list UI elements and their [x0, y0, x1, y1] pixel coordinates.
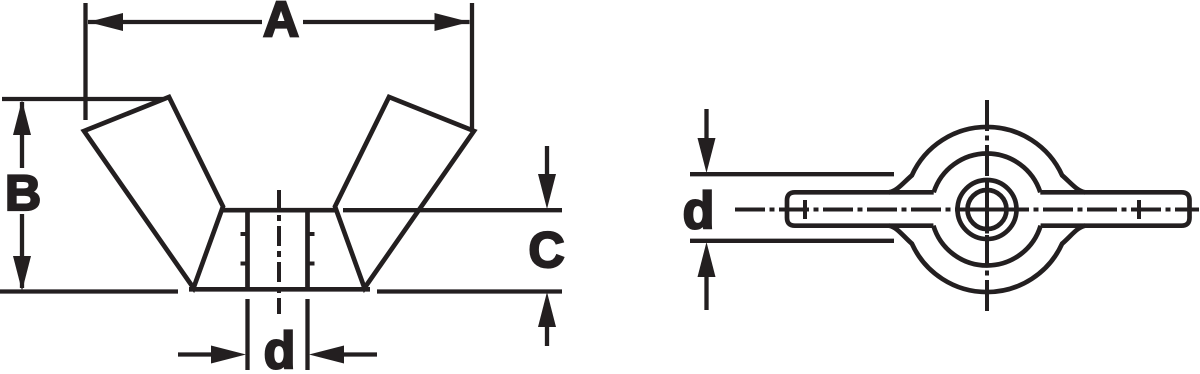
right wing outline: [335, 97, 474, 288]
dim d side extension line bottom: [690, 239, 894, 243]
left wing outline: [84, 97, 223, 288]
thread tick left lower: [241, 262, 246, 266]
dim A arrowhead left: [88, 13, 123, 31]
dim B arrowhead bottom: [13, 256, 31, 291]
dim d side arrowhead top: [698, 138, 716, 173]
thread minor circle: [968, 190, 1007, 229]
dim d side arrowhead bottom: [698, 242, 716, 277]
dim B extension line top: [2, 97, 163, 101]
wing bar top edge inside hub left: [889, 190, 934, 195]
svg-text:C: C: [528, 222, 564, 278]
side view outline (wing bar + hub circle with neck fillets): [787, 127, 1190, 292]
crosshair vertical: [985, 186, 989, 234]
thread tick right lower: [310, 262, 315, 266]
nut body bottom edge: [189, 287, 370, 292]
dim C arrowhead top: [538, 174, 556, 209]
wing bar bottom edge inside hub right: [1041, 223, 1085, 228]
dim d extension line left: [245, 299, 249, 370]
dim A extension line right: [470, 3, 474, 129]
wing tip inner line left: [803, 200, 807, 219]
vertical centerline side view: [985, 100, 989, 311]
wing tip inner line right: [1137, 200, 1141, 219]
dim B line lower segment: [20, 214, 24, 288]
svg-text:d: d: [683, 182, 715, 240]
dim d side arrow tail bottom: [704, 276, 708, 310]
nut body top edge: [221, 208, 337, 213]
crosshair horizontal: [963, 208, 1011, 212]
dim B arrowhead top: [13, 100, 31, 135]
baseline left (B bottom extension): [0, 289, 178, 293]
dim d side extension line top: [690, 172, 894, 176]
dim d extension line right: [305, 299, 309, 370]
dim C arrow tail bottom: [545, 323, 549, 346]
svg-text:d: d: [264, 322, 296, 374]
dim d side arrow tail top: [704, 109, 708, 142]
centerline front view: [277, 190, 281, 314]
wing bar top edge inside hub right: [1040, 190, 1085, 195]
dim A extension line left: [83, 3, 87, 120]
svg-text:A: A: [263, 0, 299, 48]
baseline right (C bottom extension): [377, 289, 562, 293]
dim C arrowhead bottom: [538, 292, 556, 327]
thread line right: [305, 210, 310, 288]
dim d arrowhead left: [211, 346, 246, 364]
dim d arrow tail right: [342, 352, 377, 356]
dim C arrow tail top: [545, 146, 549, 178]
dim A line right segment: [303, 20, 470, 24]
dim A arrowhead right: [435, 13, 470, 31]
thread line left: [245, 210, 250, 288]
dim A line left segment: [88, 20, 262, 24]
dim d arrow tail left: [178, 352, 213, 356]
hub middle circle bottom arc: [933, 226, 1040, 266]
dim C extension line top: [343, 208, 562, 212]
svg-text:B: B: [5, 165, 41, 221]
dim B line upper segment: [20, 102, 24, 168]
thread major circle: [958, 180, 1017, 239]
thread tick left upper: [241, 232, 246, 236]
hub middle circle top arc: [934, 153, 1041, 192]
thread tick right upper: [310, 232, 315, 236]
dim d arrowhead right: [309, 346, 344, 364]
horizontal centerline side view: [735, 208, 1199, 212]
wing bar bottom edge inside hub left: [889, 223, 933, 228]
